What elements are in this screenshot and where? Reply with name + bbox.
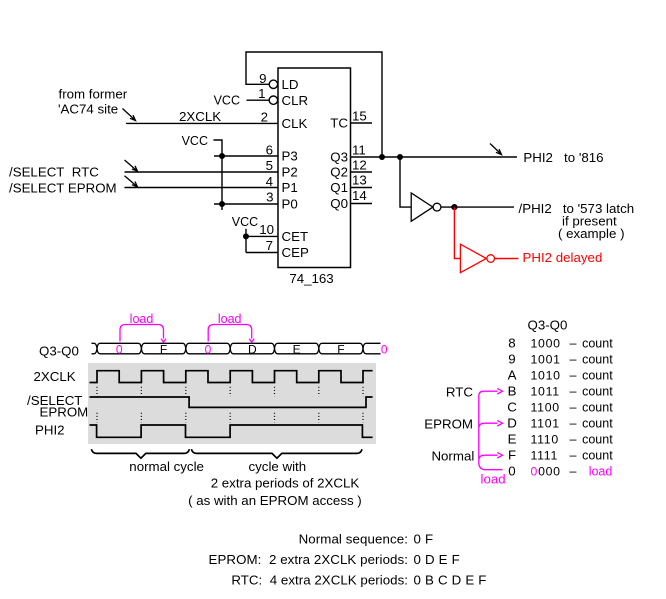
svg-text:PHI2 delayed: PHI2 delayed bbox=[523, 250, 603, 265]
wire Q2 stub bbox=[351, 171, 373, 173]
dotted gridlines band 1 bbox=[97, 387, 363, 396]
svg-text:EPROM: EPROM bbox=[424, 417, 473, 432]
svg-text:10: 10 bbox=[259, 222, 274, 237]
wire Q1 stub bbox=[351, 187, 373, 189]
svg-text:CLR: CLR bbox=[282, 93, 309, 108]
svg-text:12: 12 bbox=[352, 158, 367, 173]
svg-text:0: 0 bbox=[508, 464, 515, 479]
bus segment 2 bbox=[141, 343, 185, 354]
svg-text:1001: 1001 bbox=[531, 353, 561, 367]
svg-text:4: 4 bbox=[266, 174, 273, 189]
brace normal cycle bbox=[91, 449, 189, 458]
inverter U2 triangle bbox=[411, 193, 433, 221]
svg-text:VCC: VCC bbox=[182, 134, 208, 148]
svg-text:–: – bbox=[570, 417, 577, 431]
wire P0 bbox=[214, 203, 278, 205]
svg-text:8: 8 bbox=[508, 336, 515, 351]
svg-text:E: E bbox=[508, 432, 517, 447]
svg-text:1000: 1000 bbox=[531, 337, 561, 351]
arrowhead to D bbox=[497, 420, 502, 426]
brace cycle with bbox=[191, 449, 362, 458]
wire /PHI2 bbox=[441, 206, 514, 208]
svg-text:count: count bbox=[582, 449, 613, 463]
svg-text:F: F bbox=[508, 448, 516, 463]
wire /SELECT RTC to P2 bbox=[125, 171, 279, 173]
svg-text:P2: P2 bbox=[282, 165, 298, 180]
svg-text:Q1: Q1 bbox=[330, 180, 348, 195]
load bracket 1 bbox=[120, 325, 166, 343]
wire P3 bbox=[214, 155, 278, 157]
junction Q3 feedback bbox=[379, 154, 385, 160]
wire VCC corner to P3/P0 vertical bbox=[214, 140, 223, 210]
wire CEP bbox=[246, 252, 278, 254]
wire Q3 to PHI2 bbox=[351, 156, 518, 158]
wire 2XCLK to CLK bbox=[126, 122, 278, 124]
svg-text:1010: 1010 bbox=[531, 369, 561, 383]
svg-text:P3: P3 bbox=[282, 149, 298, 164]
svg-text:( example ): ( example ) bbox=[558, 226, 625, 241]
wire VCC to CLR bbox=[247, 99, 270, 101]
bus segment 6 bbox=[319, 343, 363, 354]
svg-text:F: F bbox=[160, 342, 167, 356]
inverter U2 bubble bbox=[433, 203, 441, 211]
arrow onto PHI2 wire bbox=[490, 144, 502, 155]
svg-text:EPROM: 2 extra 2XCLK periods:: EPROM: 2 extra 2XCLK periods: bbox=[209, 552, 408, 567]
svg-text:LD: LD bbox=[282, 77, 299, 92]
svg-text:EPROM: EPROM bbox=[40, 405, 89, 420]
svg-text:PHI2 to '816: PHI2 to '816 bbox=[523, 150, 603, 165]
svg-text:load: load bbox=[481, 472, 506, 487]
svg-text:–: – bbox=[570, 401, 577, 415]
svg-text:F: F bbox=[337, 342, 344, 356]
bus segment 4 bbox=[230, 343, 274, 354]
svg-text:TC: TC bbox=[330, 116, 348, 131]
svg-text:5: 5 bbox=[266, 158, 273, 173]
wire Q3 down to inverter input bbox=[400, 157, 411, 207]
wire red to delayed inverter bbox=[454, 207, 460, 258]
arrow into P2 wire bbox=[125, 160, 138, 171]
svg-text:VCC: VCC bbox=[214, 94, 240, 108]
svg-text:Q0: Q0 bbox=[330, 196, 348, 211]
svg-text:/SELECT EPROM: /SELECT EPROM bbox=[9, 181, 117, 196]
svg-text:–: – bbox=[570, 449, 577, 463]
svg-text:RTC: RTC bbox=[446, 385, 473, 400]
svg-text:CLK: CLK bbox=[282, 116, 308, 131]
bus segment 5 bbox=[275, 343, 319, 354]
svg-text:'AC74 site: 'AC74 site bbox=[58, 101, 118, 116]
svg-text:count: count bbox=[582, 401, 613, 415]
junction P3/VCC bbox=[219, 153, 225, 159]
waveform /SELECT EPROM bbox=[90, 397, 373, 407]
svg-text:Q3-Q0: Q3-Q0 bbox=[39, 343, 79, 358]
svg-text:Normal: Normal bbox=[431, 449, 474, 464]
svg-text:2XCLK: 2XCLK bbox=[34, 369, 76, 384]
svg-text:0: 0 bbox=[381, 342, 388, 356]
svg-text:normal cycle: normal cycle bbox=[129, 459, 204, 474]
waveform PHI2 bbox=[90, 425, 373, 437]
arrow into 2XCLK wire bbox=[123, 109, 136, 121]
svg-text:count: count bbox=[582, 385, 613, 399]
svg-text:load: load bbox=[218, 312, 242, 326]
svg-text:count: count bbox=[582, 417, 613, 431]
svg-text:D: D bbox=[507, 416, 517, 431]
svg-text:A: A bbox=[508, 368, 517, 383]
svg-text:7: 7 bbox=[266, 238, 273, 253]
svg-text:2: 2 bbox=[261, 109, 268, 124]
wire CET bbox=[246, 235, 278, 237]
svg-text:cycle with: cycle with bbox=[249, 459, 307, 474]
svg-text:Q3-Q0: Q3-Q0 bbox=[528, 318, 568, 333]
svg-text:P1: P1 bbox=[282, 180, 298, 195]
svg-text:VCC: VCC bbox=[232, 215, 258, 229]
bus segment 3 bbox=[186, 343, 230, 354]
svg-text:Normal sequence:: Normal sequence: bbox=[299, 532, 408, 547]
junction CET/VCC bbox=[243, 233, 249, 239]
wire Q0 stub bbox=[351, 203, 373, 205]
svg-text:count: count bbox=[582, 337, 613, 351]
junction /PHI2 red tap bbox=[451, 204, 457, 210]
svg-text:0 B C D E F: 0 B C D E F bbox=[414, 572, 487, 587]
svg-text:1111: 1111 bbox=[531, 449, 559, 463]
svg-text:9: 9 bbox=[508, 352, 515, 367]
svg-text:/SELECT RTC: /SELECT RTC bbox=[9, 165, 99, 180]
svg-text:0: 0 bbox=[116, 342, 123, 356]
svg-text:P0: P0 bbox=[282, 197, 298, 212]
svg-text:C: C bbox=[507, 400, 517, 415]
svg-text:1: 1 bbox=[258, 86, 265, 101]
arrowhead to F bbox=[497, 452, 502, 458]
svg-text:14: 14 bbox=[352, 188, 367, 203]
arrow into P1 wire bbox=[125, 176, 138, 187]
svg-text:1100: 1100 bbox=[531, 401, 560, 415]
bus segment 1 bbox=[97, 343, 141, 354]
svg-text:–: – bbox=[570, 465, 577, 479]
CLR inverting bubble bbox=[269, 96, 277, 104]
bus open end bbox=[363, 343, 381, 354]
svg-text:0 D E F: 0 D E F bbox=[414, 552, 460, 567]
svg-text:load: load bbox=[130, 312, 154, 326]
load flow line (magenta) bbox=[479, 391, 503, 470]
svg-text:RTC: 4 extra 2XCLK periods:: RTC: 4 extra 2XCLK periods: bbox=[231, 572, 408, 587]
svg-text:1011: 1011 bbox=[531, 385, 560, 399]
svg-text:13: 13 bbox=[352, 173, 367, 188]
svg-text:0: 0 bbox=[205, 342, 212, 356]
load bracket 2 bbox=[208, 325, 254, 343]
junction P0/VCC bbox=[219, 201, 225, 207]
svg-text:–: – bbox=[570, 385, 577, 399]
svg-text:1110: 1110 bbox=[531, 433, 559, 447]
svg-text:15: 15 bbox=[352, 109, 367, 124]
wire /SELECT EPROM to P1 bbox=[125, 187, 279, 189]
timing diagram gray background bbox=[88, 363, 376, 444]
IC U1 74_163 counter body bbox=[278, 68, 351, 268]
svg-text:Q2: Q2 bbox=[330, 165, 348, 180]
dotted gridlines band 2 bbox=[97, 413, 363, 423]
svg-text:E: E bbox=[293, 342, 301, 356]
svg-text:CET: CET bbox=[282, 229, 309, 244]
inverter U3 triangle (red) bbox=[460, 244, 486, 273]
svg-text:–: – bbox=[570, 337, 577, 351]
svg-text:count: count bbox=[582, 369, 613, 383]
wire PHI2 delayed bbox=[495, 258, 519, 260]
svg-text:6: 6 bbox=[266, 143, 273, 158]
svg-text:from former: from former bbox=[59, 86, 128, 101]
svg-text:1101: 1101 bbox=[531, 417, 560, 431]
svg-text:B: B bbox=[508, 384, 517, 399]
svg-text:CEP: CEP bbox=[282, 245, 309, 260]
svg-text:D: D bbox=[248, 342, 257, 356]
svg-text:–: – bbox=[570, 369, 577, 383]
svg-text:2 extra periods of 2XCLK: 2 extra periods of 2XCLK bbox=[211, 476, 360, 491]
svg-text:2XCLK: 2XCLK bbox=[179, 109, 221, 124]
svg-text:count: count bbox=[582, 433, 613, 447]
svg-text:–: – bbox=[570, 353, 577, 367]
svg-text:Q3: Q3 bbox=[330, 150, 348, 165]
arrowhead to B bbox=[497, 388, 502, 394]
junction Q3 inverter tap bbox=[397, 154, 403, 160]
svg-text:74_163: 74_163 bbox=[289, 271, 333, 286]
inverter U3 bubble (red) bbox=[487, 255, 495, 263]
svg-text:0000: 0000 bbox=[531, 465, 561, 479]
wire TC stub bbox=[351, 122, 373, 124]
svg-text:PHI2: PHI2 bbox=[35, 423, 65, 438]
svg-text:3: 3 bbox=[266, 190, 273, 205]
svg-text:( as with an EPROM access ): ( as with an EPROM access ) bbox=[188, 493, 362, 508]
wire LD feedback from Q3 node bbox=[246, 52, 382, 157]
svg-text:load: load bbox=[589, 465, 613, 479]
waveform 2XCLK bbox=[90, 371, 373, 383]
svg-text:0 F: 0 F bbox=[414, 532, 434, 547]
svg-text:count: count bbox=[582, 353, 613, 367]
svg-text:–: – bbox=[570, 433, 577, 447]
LD inverting bubble bbox=[269, 80, 277, 88]
wire VCC stub to CET/CEP bbox=[245, 229, 247, 253]
svg-text:11: 11 bbox=[352, 142, 366, 157]
bus Q3-Q0 start bbox=[92, 343, 98, 354]
